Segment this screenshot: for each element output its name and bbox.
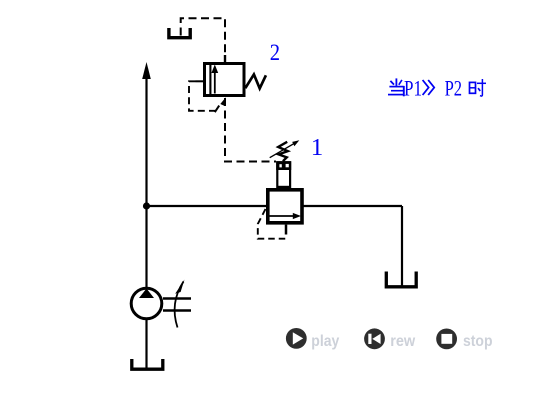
svg-text:P2: P2 <box>445 75 463 100</box>
svg-text:rew: rew <box>390 333 415 350</box>
svg-text:1: 1 <box>311 134 324 161</box>
svg-text:P1: P1 <box>404 75 422 100</box>
svg-text:play: play <box>311 333 339 350</box>
svg-text:stop: stop <box>463 333 493 350</box>
svg-text:2: 2 <box>270 40 280 65</box>
